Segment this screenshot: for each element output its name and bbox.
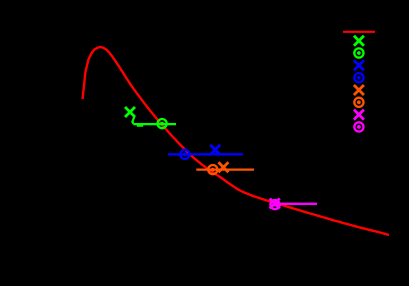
blue X marker xyxy=(210,145,220,155)
green error bar xyxy=(133,123,176,125)
red theory curve xyxy=(83,47,390,235)
blue error bar xyxy=(168,153,243,155)
legend red line sample xyxy=(343,31,375,33)
magenta X marker xyxy=(270,199,280,209)
green circle marker xyxy=(158,119,167,128)
legend blue circle xyxy=(354,73,363,82)
legend orange X xyxy=(354,85,364,95)
green X marker xyxy=(125,107,135,117)
legend orange circle xyxy=(354,98,363,107)
orange error bar xyxy=(196,168,254,170)
magenta circle marker xyxy=(270,200,279,209)
orange X marker xyxy=(218,162,228,172)
legend magenta circle xyxy=(354,122,363,131)
blue circle marker xyxy=(180,150,189,159)
legend blue X xyxy=(354,60,364,70)
magenta error bar xyxy=(276,203,317,205)
green connector xyxy=(132,116,134,123)
legend green circle xyxy=(354,48,363,57)
legend magenta X xyxy=(354,110,364,120)
green dash xyxy=(137,125,143,127)
orange circle marker xyxy=(208,165,217,174)
legend green X xyxy=(354,36,364,46)
